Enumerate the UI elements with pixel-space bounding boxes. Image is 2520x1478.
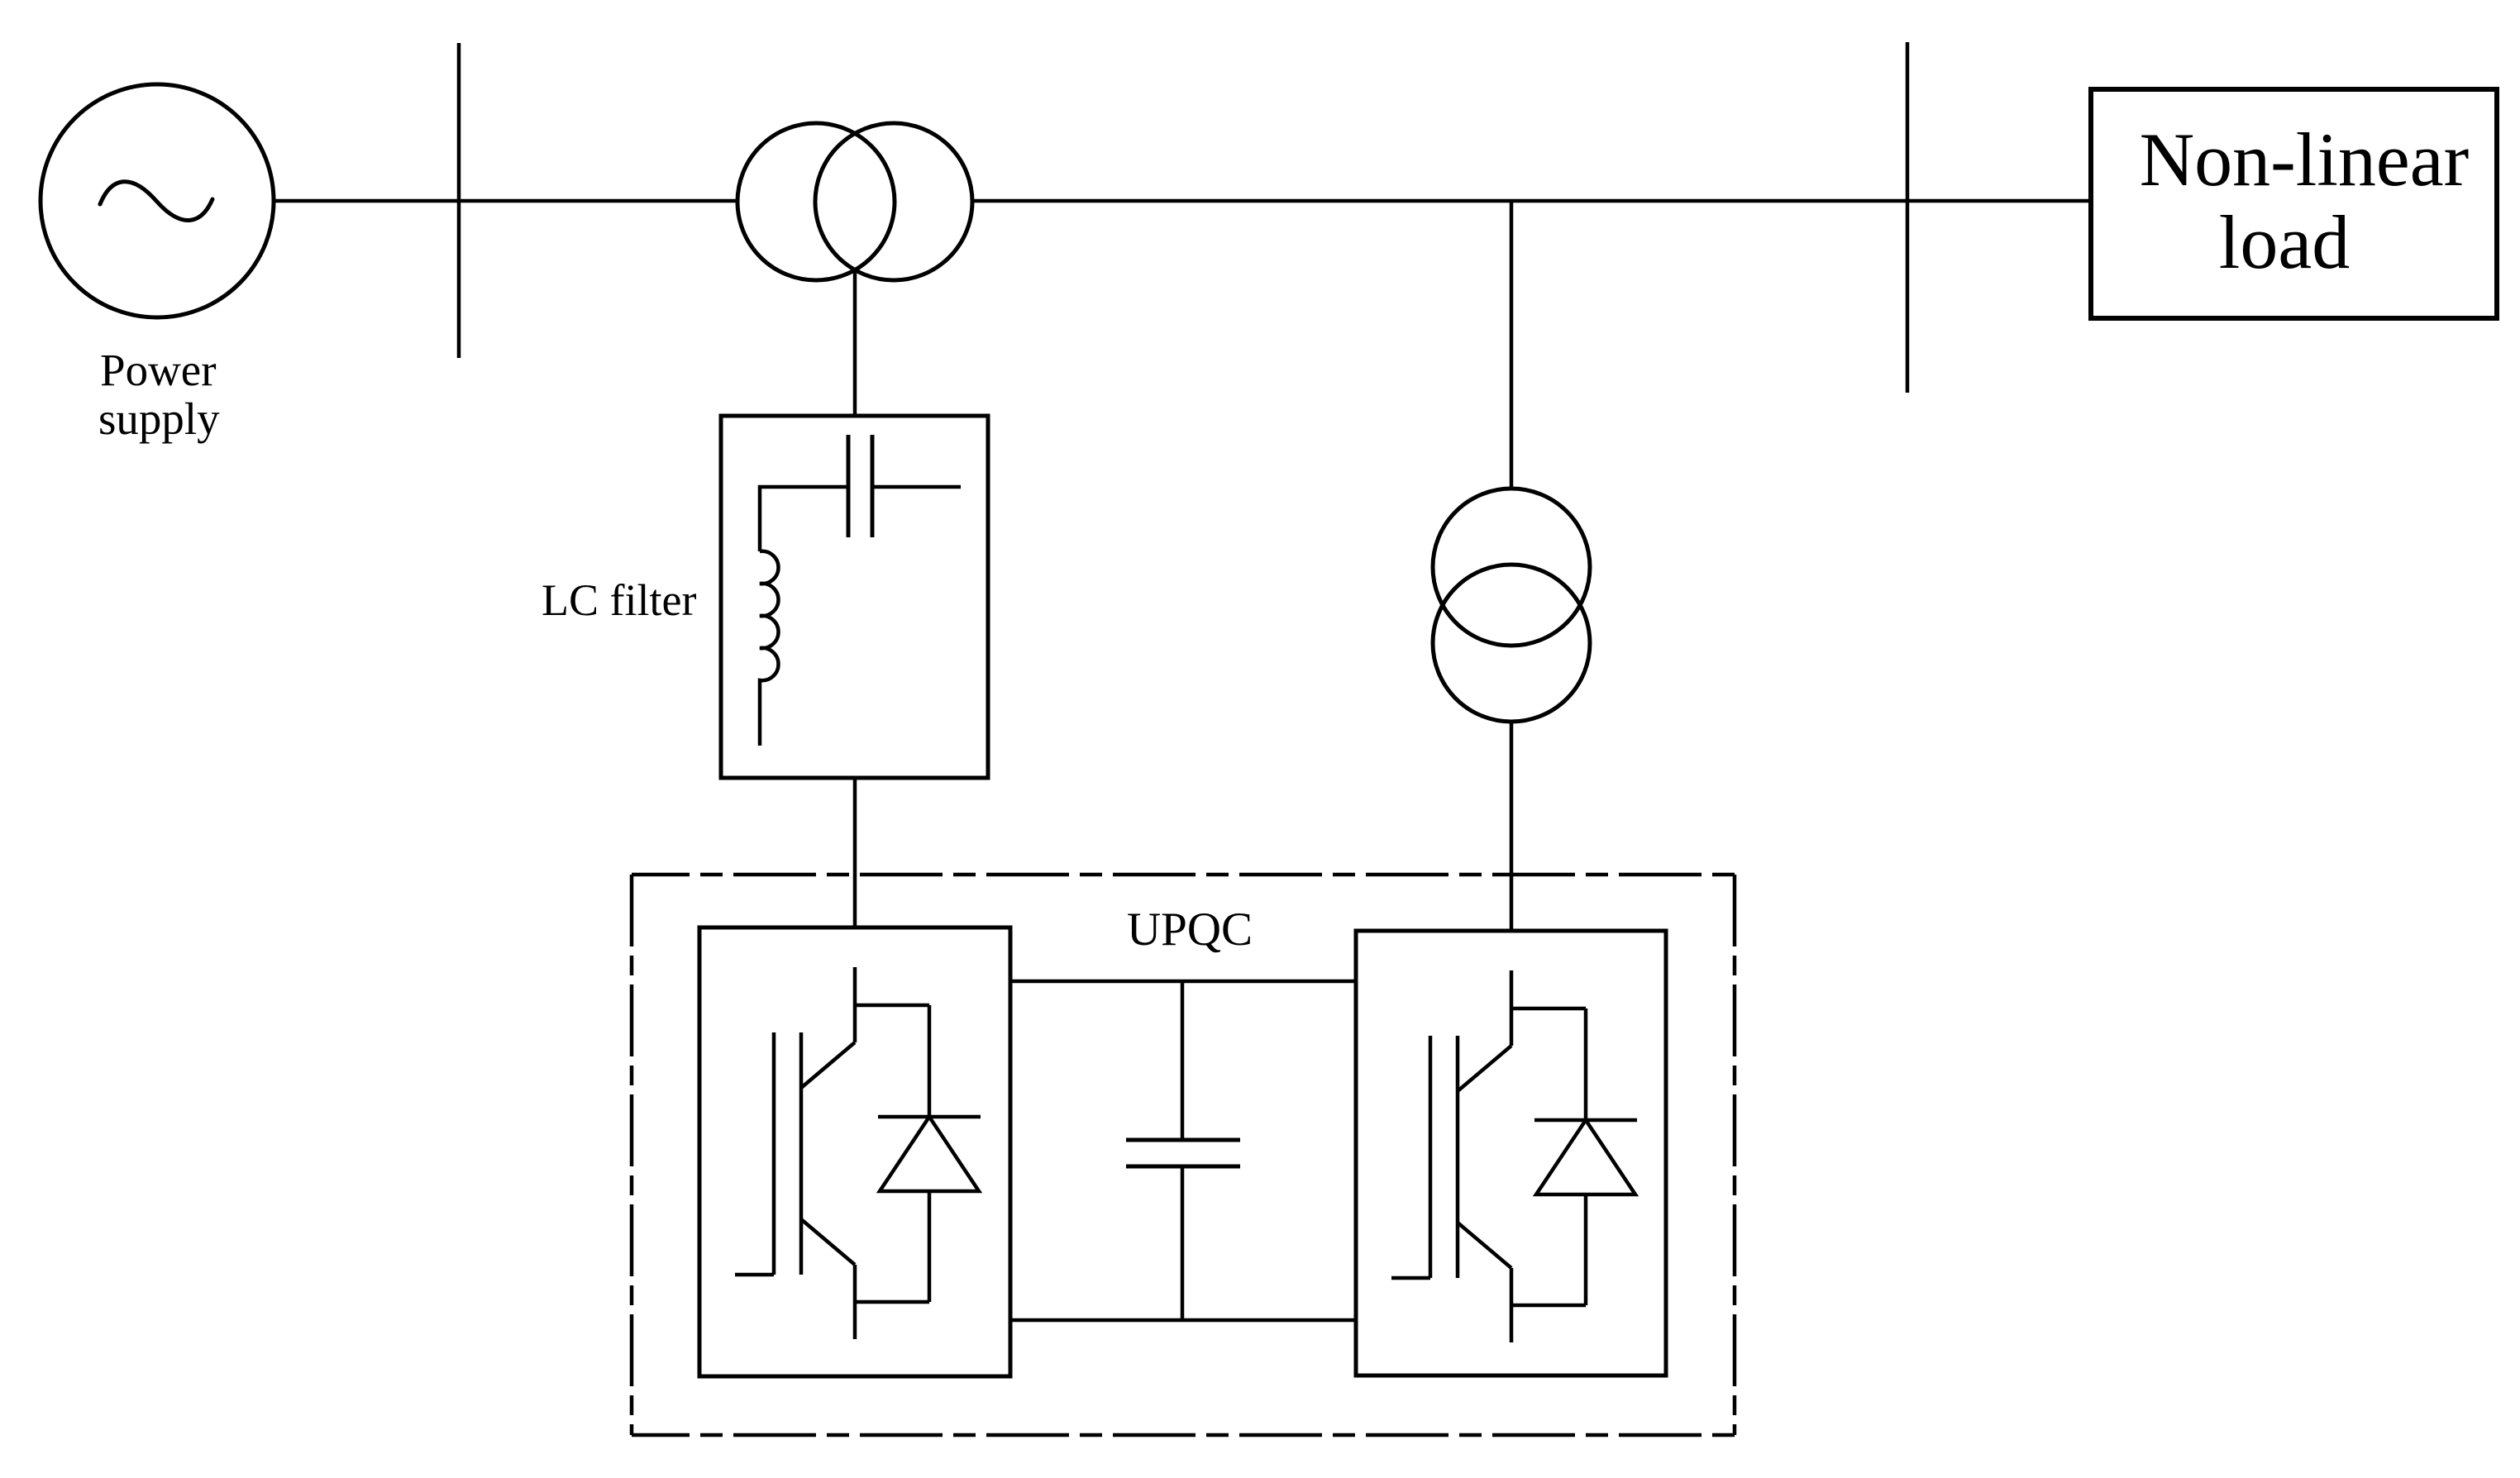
inductor L (LC filter) <box>760 551 779 746</box>
wire: main bus from source to transformer T1 <box>274 199 739 203</box>
DC link lower wire <box>1010 1318 1356 1323</box>
wire: capacitor left lead <box>760 487 847 551</box>
wire: T2 to converter VSC2 <box>1510 722 1514 931</box>
IGBT Q1 channel bar <box>799 1032 804 1275</box>
UPQC enclosure dashed box <box>632 875 1735 1435</box>
transformer T1 secondary winding <box>815 123 972 280</box>
IGBT Q1 collector diagonal <box>801 1042 855 1088</box>
wire: main bus junction down to transformer T2 <box>1510 201 1514 489</box>
non-linear load box <box>2091 89 2497 318</box>
diode D1 branch lower wire <box>928 1191 932 1302</box>
DC link capacitor Cdc lower plate <box>1126 1165 1240 1169</box>
DC link capacitor Cdc upper plate <box>1126 1138 1240 1142</box>
IGBT Q1 gate lead <box>735 1273 774 1277</box>
wire: main bus from T1 to non-linear load <box>971 199 2093 203</box>
sine wave inside source <box>100 182 212 221</box>
wire: capacitor right lead <box>874 485 961 489</box>
power supply source circle <box>41 84 274 317</box>
svg-text:load: load <box>2219 200 2350 284</box>
diode D1 branch upper wire <box>928 1005 932 1117</box>
diode D1 triangle <box>880 1117 979 1191</box>
svg-text:UPQC: UPQC <box>1127 903 1253 956</box>
svg-text:LC filter: LC filter <box>542 575 696 625</box>
svg-text:Non-linear: Non-linear <box>2140 117 2470 202</box>
svg-text:supply: supply <box>98 393 220 444</box>
svg-text:Power: Power <box>100 345 217 395</box>
IGBT Q1 emitter diagonal <box>801 1219 855 1265</box>
DC link capacitor Cdc lower lead <box>1181 1166 1185 1320</box>
capacitor C plates (LC filter) <box>847 435 851 537</box>
wire: T1 to LC filter <box>853 270 857 416</box>
wire: emitter to diode branch <box>855 1300 929 1304</box>
DC link capacitor Cdc upper lead <box>1181 981 1185 1140</box>
IGBT Q1 collector lead <box>853 967 857 1042</box>
bus bar B2 <box>1906 42 1910 393</box>
IGBT Q1 with anti-parallel diode D1 <box>735 967 981 1339</box>
converter VSC2 box <box>1356 931 1666 1375</box>
transformer T2 upper winding <box>1433 489 1590 646</box>
diode D1 cathode bar <box>878 1115 981 1119</box>
wire: collector to diode branch <box>855 1004 929 1008</box>
IGBT Q1 emitter lead <box>853 1265 857 1339</box>
bus bar B1 <box>457 43 461 358</box>
IGBT Q2 with anti-parallel diode D2 <box>1391 970 1637 1342</box>
transformer T1 primary winding <box>737 123 895 280</box>
converter VSC1 box <box>699 927 1010 1376</box>
IGBT Q1 gate bar <box>772 1032 776 1275</box>
LC filter box <box>721 416 988 778</box>
transformer T2 lower winding <box>1433 565 1590 722</box>
wire: LC filter to converter VSC1 <box>853 778 857 927</box>
DC link upper wire <box>1010 980 1356 984</box>
